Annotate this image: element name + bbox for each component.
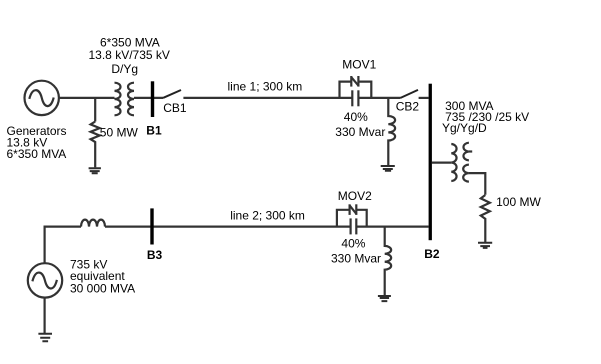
svg-text:40%: 40% xyxy=(344,110,368,124)
svg-text:D/Yg: D/Yg xyxy=(111,62,138,76)
svg-text:B1: B1 xyxy=(146,124,162,138)
svg-text:6*350 MVA: 6*350 MVA xyxy=(7,147,67,161)
svg-text:B2: B2 xyxy=(424,247,440,261)
svg-text:line 1; 300 km: line 1; 300 km xyxy=(228,79,303,93)
svg-text:40%: 40% xyxy=(341,236,365,250)
svg-text:B3: B3 xyxy=(147,248,163,262)
svg-text:13.8 kV/735 kV: 13.8 kV/735 kV xyxy=(89,48,170,62)
svg-text:CB1: CB1 xyxy=(163,101,187,115)
svg-text:Yg/Yg/D: Yg/Yg/D xyxy=(442,121,487,135)
svg-text:CB2: CB2 xyxy=(396,100,420,114)
svg-text:100 MW: 100 MW xyxy=(496,195,541,209)
svg-text:330 Mvar: 330 Mvar xyxy=(331,252,381,266)
svg-text:MOV2: MOV2 xyxy=(338,189,372,203)
svg-text:330 Mvar: 330 Mvar xyxy=(335,125,385,139)
svg-text:50 MW: 50 MW xyxy=(100,125,139,139)
svg-text:30 000 MVA: 30 000 MVA xyxy=(70,281,135,295)
svg-text:line 2; 300 km: line 2; 300 km xyxy=(230,209,305,223)
svg-text:MOV1: MOV1 xyxy=(342,58,376,72)
